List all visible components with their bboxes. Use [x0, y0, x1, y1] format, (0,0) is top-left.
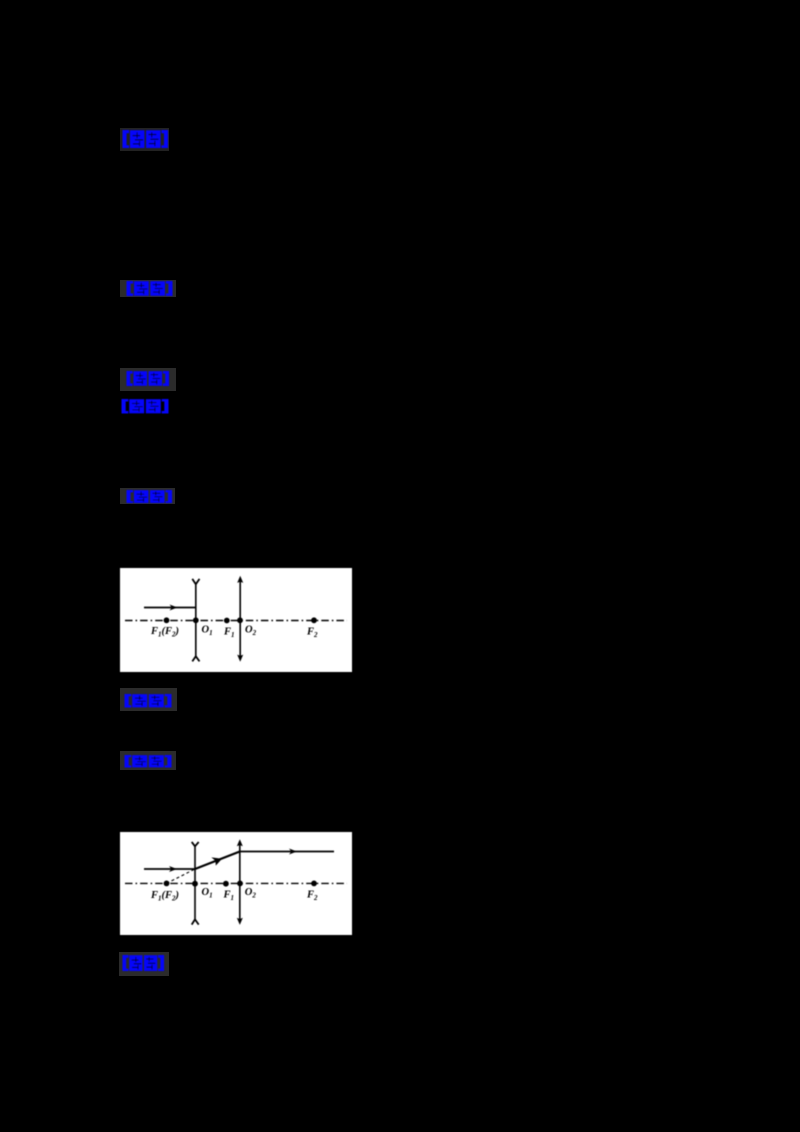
- label 5 blue text: [126, 490, 173, 504]
- L2 top arrowhead: [237, 839, 243, 846]
- dot F2: [311, 881, 317, 887]
- label 8 highlight box: [119, 952, 169, 976]
- label 1 highlight box: [120, 128, 169, 151]
- label 2 highlight box: [120, 280, 176, 298]
- L2 bottom arrowhead: [237, 918, 243, 925]
- converging lens L2 line: [239, 844, 241, 921]
- dot O1: [192, 881, 198, 887]
- label 8 blue text: [122, 955, 165, 972]
- figure 1: two-lens ray diagram (incident ray only): [120, 568, 352, 672]
- diverging lens L1 stem: [194, 846, 196, 920]
- dot F1(F2): [164, 617, 170, 623]
- dot O2: [237, 881, 243, 887]
- incident ray arrowhead: [169, 866, 177, 872]
- label 6 blue text: [124, 694, 172, 708]
- optical axis (dash-dot): [125, 882, 347, 884]
- output ray arrowhead: [289, 849, 297, 855]
- svg-text:F1: F1: [223, 627, 235, 640]
- svg-text:F2: F2: [306, 890, 318, 903]
- dot F1: [224, 618, 230, 624]
- label 7 highlight box: [120, 751, 176, 770]
- label 5 highlight box: [120, 488, 176, 504]
- label 4 blue text: [121, 399, 169, 414]
- dot O1: [193, 617, 199, 623]
- dot F1(F2): [164, 881, 170, 887]
- L1 bottom fork arms: [192, 656, 199, 661]
- converging lens L2 line: [239, 580, 241, 657]
- label 2 blue text: [126, 281, 173, 296]
- svg-text:F2: F2: [306, 627, 318, 640]
- svg-text:F1(F2): F1(F2): [150, 626, 179, 639]
- L2 bottom arrowhead: [237, 655, 243, 662]
- L1 top fork arms: [192, 842, 199, 846]
- refracted inclined ray L1->L2: [195, 852, 240, 870]
- incident ray: [144, 607, 196, 609]
- label 7 blue text: [124, 755, 172, 768]
- label 3 highlight box: [120, 368, 176, 392]
- output ray after L2: [240, 851, 334, 853]
- svg-text:O1: O1: [202, 887, 213, 900]
- svg-text:F1: F1: [223, 890, 235, 903]
- svg-text:O2: O2: [245, 625, 257, 638]
- svg-text:O2: O2: [245, 887, 257, 900]
- diverging lens L1 stem: [195, 584, 197, 657]
- inclined ray arrowhead: [211, 857, 222, 865]
- dot F2: [311, 617, 317, 623]
- L1 top fork arms: [192, 579, 199, 584]
- label 6 highlight box: [120, 688, 177, 711]
- svg-text:O1: O1: [202, 625, 213, 638]
- label 3 blue text: [126, 371, 170, 386]
- label 1 blue text: [122, 130, 169, 149]
- figure 2: two-lens ray diagram with refracted rays: [120, 832, 352, 935]
- incident ray arrowhead: [170, 605, 178, 611]
- incident ray: [144, 868, 195, 870]
- dashed virtual extension to F1(F2): [167, 869, 196, 883]
- optical axis (dash-dot): [125, 620, 347, 622]
- L2 top arrowhead: [237, 576, 243, 583]
- dot F1: [223, 881, 229, 887]
- L1 bottom fork arms: [192, 919, 199, 924]
- svg-text:F1(F2): F1(F2): [150, 890, 179, 903]
- dot O2: [237, 617, 243, 623]
